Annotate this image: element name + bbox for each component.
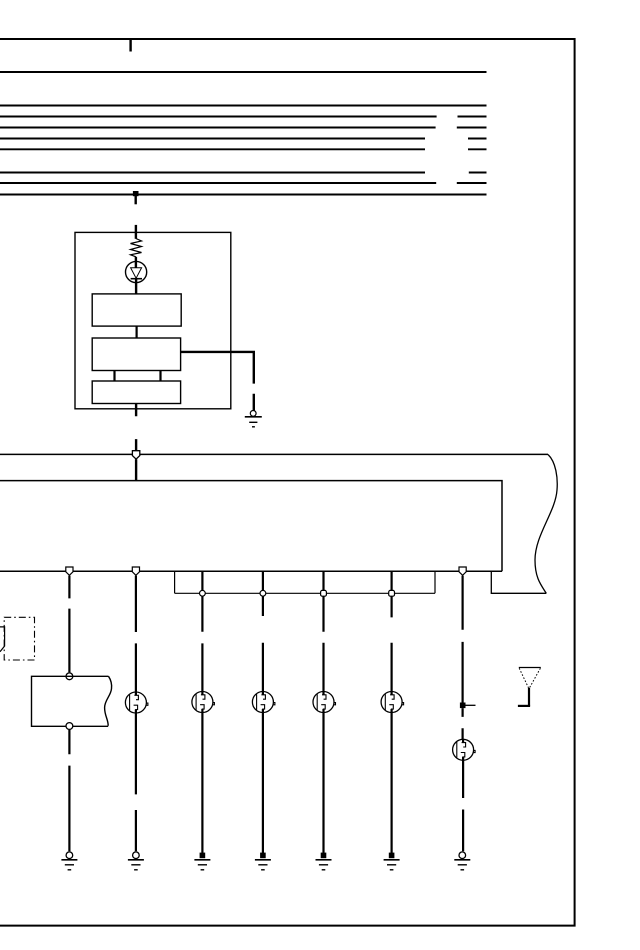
wire C5 to ground [391,713,393,854]
wire drop x=462 upper [462,576,464,703]
terminal on relay box top [66,673,73,680]
wire bus line 8 [0,182,487,184]
diode D1 (rectifier) [126,261,147,282]
ground G5 [255,853,271,870]
antenna [518,668,541,706]
wire drop x=392 [391,572,393,591]
wire bus line 3 [0,116,487,118]
wire C3 to ground [262,713,264,854]
connector strip under fuse box [175,571,435,593]
fuse/relay box [0,481,502,572]
wire bus line 4 [0,127,487,129]
wire node A to fuse box [135,459,137,480]
frame tick (harness continuation stub) [129,39,131,52]
ground G8 [454,852,470,870]
ground G3 [128,852,144,870]
wire block2 to ground G2 [181,352,254,411]
dash-dot option box [4,617,34,660]
terminal on fuse box (x=136) [132,567,139,575]
junction circle x=263 [260,590,266,596]
regulator block 3 [92,381,180,404]
wire C6 to ground [462,760,464,851]
wire block2 to block3 right [159,371,161,382]
connector C4 (x=324) [313,692,336,713]
wire drop x=324 [322,572,324,591]
terminal on fuse box (x=69) [66,567,73,575]
wire drop x=69 [68,576,70,673]
connector C2 (x=202) [192,692,215,713]
terminal on fuse box (x=462) [459,567,466,575]
junction circle x=202 [200,590,206,596]
ground G7 [384,853,400,870]
ground G1 [61,852,77,870]
antenna feed stub [466,704,476,706]
wire bus line 9 [0,194,487,196]
wire C2 to ground [201,713,203,854]
wire into alternator [135,225,137,239]
wire bus line 2 [0,105,487,107]
field coil L1 [131,239,142,257]
connector C5 (x=392) [381,692,404,713]
wire bus line 5 [0,138,487,140]
terminal on relay box bottom [66,723,73,730]
wire bus line 6 [0,148,487,150]
alternator box U1 [75,232,231,408]
wire diode to regulator [135,279,137,294]
wire drop x=136 [135,576,137,693]
wire alternator output [135,404,137,451]
connector C1 (x=136) [125,692,148,713]
wire from junction down [134,196,136,204]
main harness wire (horizontal) [0,453,548,455]
wire splice to connector [462,708,464,739]
wire C4 to ground [322,713,324,854]
wire bus line 1 [0,71,487,73]
torn edge (harness continues off-page) [535,455,557,594]
regulator block 2 [92,338,180,371]
ground G2 [245,411,262,427]
connector C6 (x=463) [453,739,476,760]
connector C3 (x=263) [252,692,275,713]
junction square x=392 [389,590,395,596]
junction square x=324 [321,590,327,596]
wire block1 to block2 [136,326,138,338]
splice node (solid) x=462 [460,703,466,709]
junction node (solid) on bus line 9 [133,191,139,196]
ground G6 [316,853,332,870]
relay box (torn right edge) [32,676,112,726]
connector stub at page edge [0,627,5,652]
wire drop x=263 [262,572,264,591]
wire relay box to ground G1 [68,730,70,852]
wire drop x=202 [201,572,203,591]
wire C1 to ground [135,713,137,851]
regulator block 1 [92,294,181,326]
ground G4 [194,853,210,870]
wire coil to diode [135,257,137,268]
wire block2 to block3 left [113,371,115,382]
terminal node A on harness [132,451,139,459]
wire bus line 7 [0,172,487,174]
